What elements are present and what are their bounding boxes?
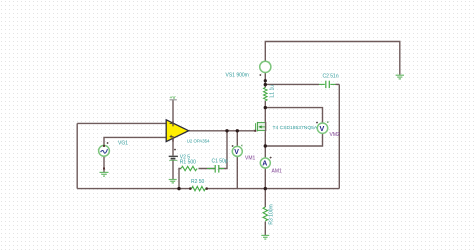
resistor R2 — [192, 186, 206, 190]
wire C2 right lead to corner — [336, 83, 340, 85]
node R2 right terminal — [205, 187, 208, 190]
op-amp U1 power symbol (+V) — [170, 95, 177, 101]
svg-text:R1 500: R1 500 — [180, 160, 196, 166]
wire op-amp to V2 battery — [172, 139, 174, 156]
resistor R1 — [181, 166, 197, 170]
wire bottom feedback right segment — [206, 188, 340, 190]
svg-text:VG1: VG1 — [118, 141, 128, 147]
capacitor C2 — [319, 81, 336, 88]
node junction drain/VM2 — [264, 106, 267, 109]
battery V2 — [169, 149, 178, 161]
wire op-amp output to gate — [189, 130, 256, 132]
node R2 left terminal — [189, 187, 192, 190]
node VG1 bottom terminal — [103, 168, 105, 170]
ground (VG1) — [100, 172, 109, 176]
voltmeter VM2 — [316, 121, 328, 133]
voltage generator VG1 — [99, 142, 110, 156]
wire bottom node to R3 — [264, 189, 266, 207]
voltage source VS1 — [259, 61, 271, 76]
wire op-amp positive supply — [172, 100, 174, 124]
wire bottom feedback left segment — [77, 188, 191, 190]
svg-text:VM1: VM1 — [245, 156, 256, 162]
wire VM2 bottom branch — [265, 133, 322, 146]
transistor T4 CSD18537NQ5A (NMOS) — [256, 122, 266, 131]
svg-text:U2 OPA354: U2 OPA354 — [187, 139, 210, 145]
wire VM1 bottom riser — [236, 156, 238, 189]
capacitor C1 — [207, 165, 224, 173]
resistor R3 — [263, 207, 267, 221]
node VS1 bottom terminal — [264, 79, 267, 82]
wire VM2 top branch — [265, 108, 322, 124]
wire node to C2 — [265, 83, 319, 85]
inductor L1 — [264, 87, 268, 101]
wire source to AM1 — [264, 130, 266, 158]
svg-text:AM1: AM1 — [272, 169, 283, 175]
wire left feedback rail — [76, 123, 78, 188]
node VG1 top terminal — [103, 145, 105, 147]
node junction bottom/AM1/R3 — [264, 187, 267, 190]
wire AM1 to bottom node — [264, 168, 266, 189]
svg-text:V: V — [234, 149, 239, 156]
svg-text:A: A — [262, 161, 267, 168]
op-amp U2 OPA354 — [166, 120, 188, 142]
voltmeter VM1 — [232, 145, 243, 157]
node junction source/VM2 — [264, 144, 267, 147]
wire VM1 top riser — [236, 131, 238, 147]
node junction VS1/C2/L1 — [264, 83, 267, 86]
wire VS1 top to ground rail — [265, 42, 400, 75]
ammeter AM1 — [260, 157, 271, 168]
svg-text:R2 50: R2 50 — [191, 179, 205, 185]
wire right vertical (C2 to bottom) — [338, 84, 340, 188]
node junction bottom/R1 — [177, 187, 180, 190]
wire inverting input (top-left horizontal) — [77, 122, 166, 124]
wire R1 left lead drop to bottom wire — [179, 169, 181, 189]
svg-text:VM2: VM2 — [330, 132, 341, 138]
wire C1 riser to output node — [219, 131, 227, 169]
svg-text:T4 CSD18537NQ5A: T4 CSD18537NQ5A — [273, 125, 319, 130]
wire VG1 to noninverting input — [104, 137, 166, 145]
ground (top right) — [396, 75, 404, 79]
wire negative pin inside op-amp — [172, 136, 174, 142]
node junction output/VM1 — [236, 129, 239, 132]
node junction output/C1 — [225, 129, 228, 132]
svg-text:R3 100m: R3 100m — [268, 204, 274, 224]
ground (R3) — [261, 235, 269, 239]
svg-text:L1 1u: L1 1u — [269, 85, 275, 98]
wire VG1 to ground — [103, 156, 105, 172]
wire VS1 bottom to L1 — [264, 73, 266, 88]
svg-text:VS1 900m: VS1 900m — [226, 72, 249, 78]
wire R1 to C1 link — [199, 168, 216, 170]
node gate terminal — [254, 130, 256, 132]
ground (V2 battery) — [169, 180, 177, 183]
wire R3 to ground — [264, 222, 266, 236]
svg-text:V: V — [320, 124, 325, 133]
wire V2 battery to ground — [172, 160, 174, 179]
svg-text:C1 50p: C1 50p — [212, 158, 228, 164]
wire power pin inside op-amp — [172, 121, 174, 126]
wire L1 to drain node — [264, 101, 266, 123]
wire through MOSFET right side — [265, 122, 267, 131]
svg-text:C2 51n: C2 51n — [323, 74, 339, 80]
